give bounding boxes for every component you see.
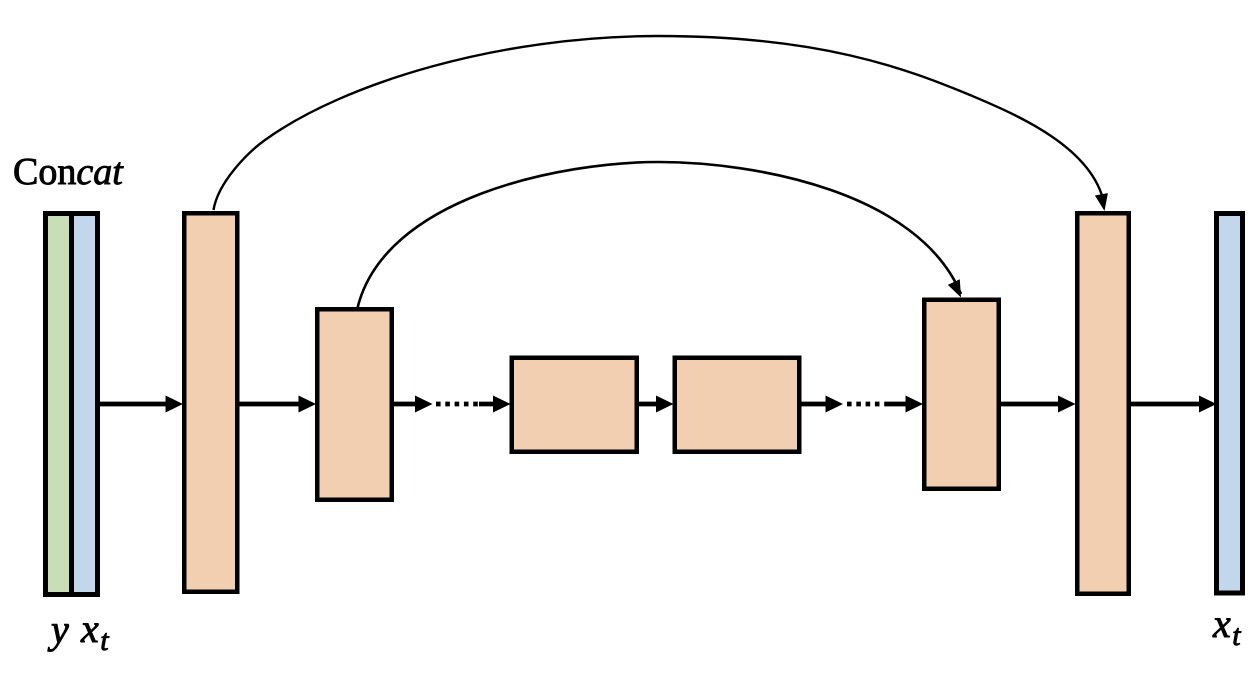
wire: concat block to encoder block 1: [100, 402, 166, 407]
svg-text:y: y: [47, 607, 69, 652]
arrowhead of inner skip curve: [948, 279, 967, 300]
encoder block 2 (medium orange): [315, 307, 394, 502]
svg-text:Concat: Concat: [13, 151, 124, 193]
decoder block 2 (medium orange): [922, 298, 1001, 492]
wire: decoder block 2 to decoder block 1: [1001, 402, 1058, 407]
y channel (green): [48, 216, 69, 592]
output x_t bar (blue): [1214, 211, 1245, 596]
concat input block (y + x_t) outer border: [43, 211, 100, 597]
wire: encoder block 2 to bottleneck (solid, arrow, dotted, arrow): [394, 402, 416, 407]
skip connection curve outer (encoder L1 to decoder L1): [214, 36, 1105, 210]
wire: decoder block 1 to output x_t: [1131, 402, 1199, 407]
bottleneck block 2: [673, 356, 802, 455]
wire: bottleneck to decoder block 2 (solid, arrow, dotted, arrow): [802, 402, 827, 407]
bottleneck block 1: [510, 356, 640, 455]
arrowhead of outer skip curve: [1095, 193, 1111, 212]
encoder block 1 (tall orange): [182, 211, 240, 594]
wire: encoder block 1 to encoder block 2: [240, 402, 300, 407]
decoder block 1 (tall orange): [1075, 211, 1131, 596]
skip connection curve inner (encoder L2 to decoder L2): [357, 162, 961, 310]
x_t channel (blue): [74, 216, 95, 592]
wire: bottleneck block 1 to bottleneck block 2: [639, 402, 657, 407]
